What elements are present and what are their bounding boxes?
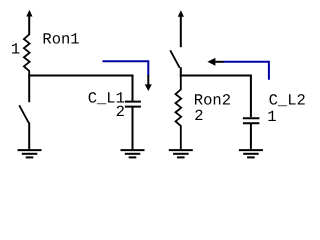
ground (C_L2)	[239, 150, 263, 157]
ground (C_L1)	[121, 150, 145, 157]
svg-text:1: 1	[267, 108, 276, 126]
svg-text:2: 2	[194, 107, 203, 125]
current annotation arrow (into C_L1), blue elbow	[103, 61, 149, 75]
current source arrow I2	[178, 10, 184, 47]
current annotation arrow (from C_L2), black head	[207, 58, 223, 66]
current source arrow I1	[26, 10, 32, 35]
svg-text:C_L2: C_L2	[269, 91, 306, 109]
capacitor C_L2	[243, 118, 260, 150]
resistor Ron1	[24, 35, 30, 77]
wire node B (right branch to C_L2)	[180, 76, 251, 118]
current annotation arrow (from C_L2), blue elbow	[223, 62, 269, 80]
svg-text:Ron1: Ron1	[42, 31, 79, 49]
svg-text:2: 2	[116, 103, 125, 121]
ground (Ron2 branch)	[169, 150, 193, 157]
wire node A (left branch to C_L1)	[28, 76, 132, 102]
current annotation arrow (into C_L1), black head	[145, 75, 152, 91]
svg-text:1: 1	[11, 41, 20, 59]
switch S2	[170, 50, 181, 76]
capacitor C_L1	[125, 102, 141, 150]
resistor Ron2	[176, 76, 182, 150]
ground (left branch)	[18, 150, 42, 157]
switch S1	[19, 76, 29, 150]
